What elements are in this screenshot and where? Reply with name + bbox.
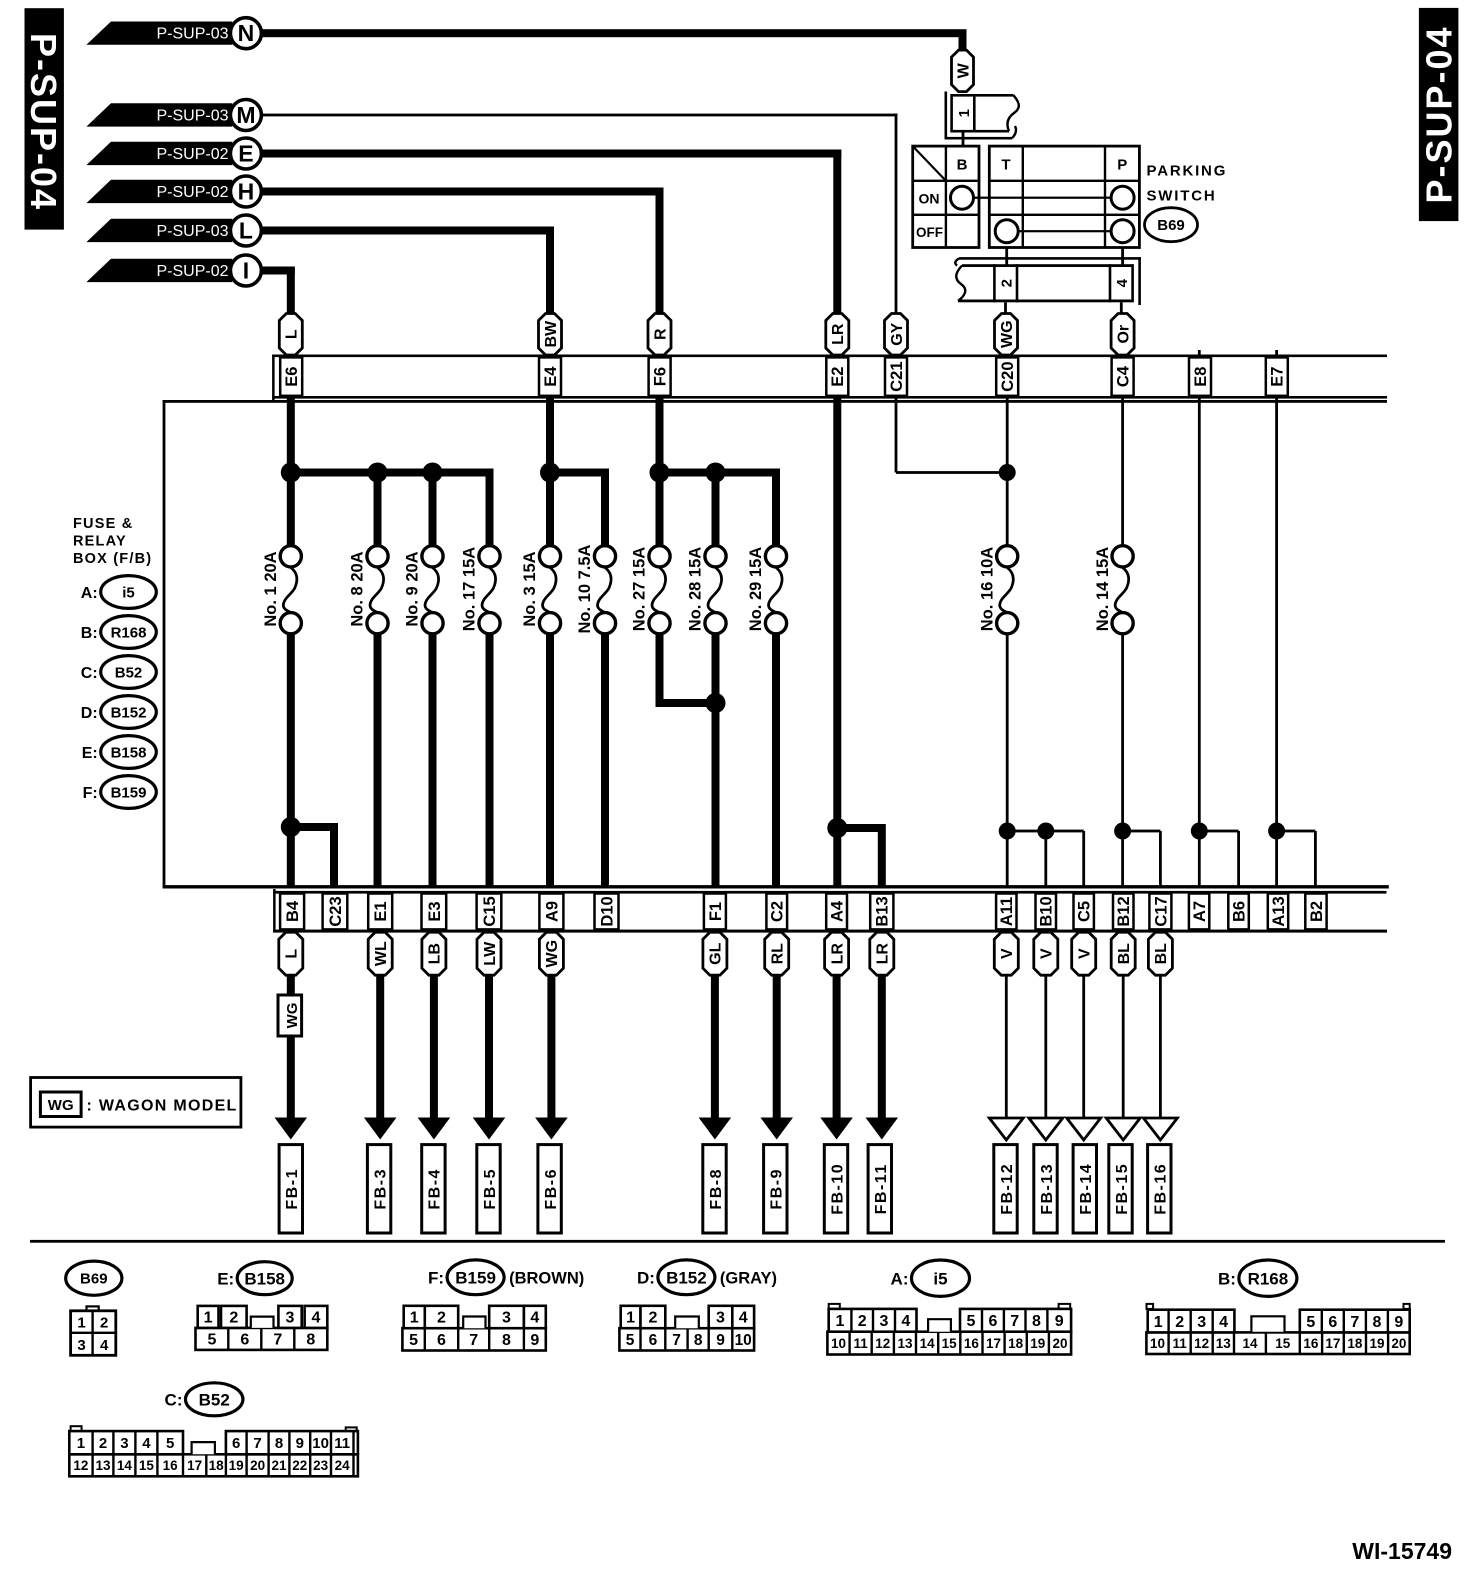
svg-text:C20: C20 [999, 361, 1017, 391]
junction B12 tap [1114, 823, 1131, 840]
arrow to FB-14 [1082, 974, 1085, 1119]
svg-text:B159: B159 [455, 1268, 496, 1287]
connector view B152 key tab [675, 1317, 699, 1329]
wire switch P to pin 4 [1121, 248, 1124, 266]
svg-text:WG: WG [48, 1097, 74, 1114]
svg-text:P-SUP-04: P-SUP-04 [23, 33, 64, 211]
svg-text:10: 10 [1150, 1336, 1165, 1351]
svg-text:F6: F6 [652, 367, 670, 386]
load box FB-4 [422, 1145, 445, 1233]
svg-text:P-SUP-02: P-SUP-02 [156, 184, 228, 201]
svg-text:3: 3 [502, 1310, 511, 1327]
svg-text:: WAGON MODEL: : WAGON MODEL [87, 1098, 238, 1115]
connector view B159 row 5-9 [402, 1328, 545, 1350]
connector ref B69 (parking switch) [1145, 208, 1198, 242]
svg-text:4: 4 [739, 1310, 748, 1327]
wire pin4 to Or [1120, 302, 1123, 315]
svg-text:No. 9 20A: No. 9 20A [404, 551, 422, 626]
pin pin E2 (top bus) [826, 357, 848, 395]
pin pin E4 (top bus) [539, 357, 561, 395]
svg-text:4: 4 [901, 1313, 910, 1330]
svg-text:Or: Or [1115, 325, 1132, 344]
svg-text:A4: A4 [829, 900, 847, 922]
svg-text:23: 23 [313, 1458, 329, 1473]
svg-text:1: 1 [1154, 1314, 1163, 1331]
pin pin E7 (top bus) [1266, 357, 1288, 395]
svg-text:No. 16 10A: No. 16 10A [978, 547, 996, 631]
svg-text:SWITCH: SWITCH [1147, 187, 1217, 204]
fuse and relay box outline [163, 400, 1389, 889]
arrow to FB-4 [430, 974, 438, 1122]
svg-text:LR: LR [829, 943, 846, 965]
wire I to E6 [261, 267, 295, 275]
arrow to FB-5 [485, 974, 493, 1122]
svg-text:ON: ON [919, 191, 940, 207]
svg-text:6: 6 [232, 1435, 240, 1452]
svg-text:9: 9 [1394, 1314, 1403, 1331]
svg-text:20: 20 [1052, 1336, 1067, 1351]
connector strip below parking switch (pins 2,4) [955, 257, 1141, 305]
wire color label LR (blue-red) at A4 [825, 932, 849, 975]
svg-text:11: 11 [334, 1435, 350, 1452]
connector strip above parking switch (pin 1) [945, 92, 1019, 140]
connector view i5 corner tabs [829, 1304, 1070, 1309]
svg-text:3: 3 [1197, 1314, 1206, 1331]
fuse No.28 15A [687, 546, 726, 634]
connector view i5 row 10-20 [827, 1332, 1071, 1355]
svg-text:E2: E2 [829, 367, 847, 387]
reference flag P-SUP-03 L (to page P-SUP-03 node L) [86, 219, 232, 242]
svg-text:RELAY: RELAY [73, 534, 127, 550]
svg-text:4: 4 [100, 1337, 109, 1354]
svg-text:E:: E: [217, 1269, 234, 1288]
svg-text:B69: B69 [1157, 217, 1185, 234]
svg-text:3: 3 [716, 1310, 725, 1327]
wire color label WL (white-blue) at E1 [368, 932, 392, 975]
svg-text:No. 29 15A: No. 29 15A [747, 547, 765, 631]
svg-text:C15: C15 [481, 896, 499, 926]
svg-text:E1: E1 [372, 901, 390, 921]
pin pin C17 (bottom bus) [1149, 894, 1171, 930]
pin pin C23 (bottom bus) [323, 894, 348, 930]
connector view R168 key tab [1251, 1316, 1284, 1331]
connector view B52 pins 1-5 [69, 1431, 183, 1454]
branch A13 to B2 [1277, 830, 1316, 833]
svg-text:19: 19 [1030, 1336, 1045, 1351]
arrow to FB-13 [1044, 974, 1047, 1119]
fuse No.27 15A [631, 546, 670, 634]
svg-text:L: L [239, 218, 253, 244]
arrow to FB-3 [376, 974, 384, 1122]
connector view B52 pins 6-11 [226, 1431, 358, 1454]
svg-text:V: V [1077, 948, 1094, 959]
svg-text:6: 6 [1328, 1314, 1337, 1331]
svg-text:FB-5: FB-5 [482, 1168, 499, 1210]
wire color label LR (blue-red) at E2 [826, 314, 849, 356]
connector view B159 pins 1-4 [404, 1306, 546, 1328]
svg-text:BL: BL [1116, 943, 1133, 965]
svg-text:P-SUP-04: P-SUP-04 [1419, 25, 1460, 203]
svg-text:No. 14 15A: No. 14 15A [1094, 547, 1112, 631]
svg-text:OFF: OFF [916, 225, 943, 240]
pin pin B2 (bottom bus) [1305, 894, 1326, 930]
svg-text:P: P [1117, 157, 1127, 174]
junction A4/B13 [827, 818, 847, 838]
svg-text:17: 17 [1325, 1336, 1340, 1351]
page banner right P-SUP-04 [1419, 8, 1459, 221]
pin pin C5 (bottom bus) [1074, 894, 1094, 930]
svg-text:20: 20 [1391, 1336, 1406, 1351]
pin pin F6 (top bus) [649, 357, 671, 395]
feed bus F6 branch [656, 469, 781, 477]
svg-text:No. 17 15A: No. 17 15A [461, 547, 479, 631]
svg-text:9: 9 [716, 1332, 725, 1349]
connector view i5 pins 5-9 [960, 1309, 1071, 1332]
svg-text:BW: BW [543, 320, 560, 348]
svg-text:B152: B152 [666, 1268, 707, 1287]
svg-text:B10: B10 [1038, 896, 1056, 926]
branch A11 to B10 to C5 [1007, 830, 1083, 833]
svg-text:FB-8: FB-8 [708, 1168, 725, 1210]
connector view R168 row 10-20 [1146, 1332, 1409, 1354]
connector view B52 key tab [192, 1442, 215, 1454]
svg-text:3: 3 [880, 1313, 889, 1330]
load box FB-14 [1073, 1145, 1096, 1233]
wire E2 to A4 [833, 350, 841, 887]
wire E7 to A13 [1275, 350, 1278, 887]
arrow to FB-10 [833, 974, 841, 1122]
svg-text:W: W [955, 62, 972, 78]
wire color label BL (black-blue) at B12 [1111, 932, 1135, 975]
svg-text:5: 5 [207, 1332, 216, 1349]
svg-text:2: 2 [229, 1310, 238, 1327]
wire color label L (blue) at B4 [279, 932, 303, 975]
junction fuse 9 tap [423, 463, 443, 483]
svg-text:E4: E4 [542, 366, 560, 387]
connector view B69 pin grid [71, 1306, 116, 1355]
svg-text:2: 2 [648, 1310, 657, 1327]
svg-text:2: 2 [100, 1315, 108, 1332]
svg-text:22: 22 [292, 1458, 307, 1473]
pin pin B10 (bottom bus) [1036, 894, 1057, 930]
svg-text:12: 12 [875, 1336, 890, 1351]
svg-text:D:: D: [81, 705, 98, 722]
svg-text:13: 13 [897, 1336, 913, 1351]
svg-text:3: 3 [77, 1337, 85, 1354]
connector view B52 row 12-24 [69, 1454, 358, 1476]
arrow to FB-11 [878, 974, 886, 1122]
fuse No.8 20A [349, 546, 388, 634]
svg-text:N: N [238, 20, 255, 46]
svg-text:18: 18 [1008, 1336, 1024, 1351]
parking switch B69 contact table [913, 146, 1140, 247]
pin pin D10 (bottom bus) [595, 894, 619, 930]
svg-text:WG: WG [999, 320, 1016, 348]
svg-text:FB-9: FB-9 [769, 1168, 786, 1210]
svg-text:A:: A: [891, 1269, 909, 1288]
svg-text:21: 21 [271, 1458, 287, 1473]
svg-text:B:: B: [81, 625, 98, 642]
svg-text:E3: E3 [426, 901, 444, 921]
pin pin B4 (bottom bus) [280, 894, 304, 930]
load box FB-13 [1034, 1145, 1057, 1233]
wire to fuse No.9 [429, 469, 437, 547]
svg-text:2: 2 [437, 1310, 446, 1327]
fuse No.1 20A [262, 546, 301, 634]
pin pin C15 (bottom bus) [477, 894, 502, 930]
svg-text:8: 8 [306, 1332, 315, 1349]
svg-text:17: 17 [986, 1336, 1001, 1351]
load box FB-12 [994, 1145, 1017, 1233]
svg-text:C:: C: [165, 1390, 183, 1409]
svg-text:8: 8 [694, 1332, 703, 1349]
svg-text:No. 1 20A: No. 1 20A [262, 551, 280, 626]
svg-text:A11: A11 [998, 897, 1016, 926]
svg-text:i5: i5 [122, 584, 135, 601]
wire color label GY (gray-yellow) at C21 [885, 314, 908, 356]
connector view B158 pins 1-4 [198, 1306, 328, 1328]
svg-text:1: 1 [204, 1310, 213, 1327]
svg-text:i5: i5 [933, 1269, 947, 1288]
svg-text:FB-14: FB-14 [1078, 1163, 1095, 1215]
wire M to C21 [261, 114, 897, 117]
pin pin A4 (bottom bus) [826, 894, 847, 930]
connector view B159 key tab [463, 1317, 485, 1329]
svg-text:7: 7 [253, 1435, 261, 1452]
wire color label W [952, 50, 974, 92]
feed bus E4 branch [546, 469, 609, 477]
pin pin E8 (top bus) [1189, 357, 1211, 395]
junction A11 tap [999, 823, 1016, 840]
svg-text:3: 3 [120, 1435, 128, 1452]
svg-text:B159: B159 [111, 784, 147, 801]
connector view B158 row 5-8 [196, 1328, 328, 1350]
svg-text:6: 6 [437, 1332, 446, 1349]
separator line [30, 1240, 1445, 1243]
junction B4/C23 [281, 817, 301, 837]
wire to fuse No.17 [486, 469, 494, 547]
svg-text:LW: LW [482, 941, 499, 966]
svg-text:7: 7 [1350, 1314, 1359, 1331]
branch A7 to B6 [1199, 830, 1238, 833]
svg-text:P-SUP-02: P-SUP-02 [156, 263, 228, 280]
svg-text:4: 4 [312, 1310, 321, 1327]
svg-text:No. 27 15A: No. 27 15A [631, 547, 649, 631]
svg-text:WI-15749: WI-15749 [1352, 1538, 1452, 1564]
svg-text:4: 4 [1114, 278, 1131, 287]
junction fuse 8 tap [368, 463, 388, 483]
svg-text:C23: C23 [327, 896, 345, 926]
wire switch T to pin 2 [1005, 248, 1008, 266]
pin pin A7 (bottom bus) [1189, 894, 1209, 930]
reference flag P-SUP-02 E (to page P-SUP-02 node E) [86, 142, 232, 165]
svg-text:E6: E6 [283, 367, 301, 387]
svg-text:B69: B69 [80, 1271, 108, 1288]
connector view B52 corner tabs [71, 1426, 357, 1431]
svg-text:(BROWN): (BROWN) [509, 1270, 584, 1288]
svg-text:A9: A9 [543, 901, 561, 922]
svg-text:4: 4 [1219, 1314, 1228, 1331]
pin pin A9 (bottom bus) [539, 894, 563, 930]
svg-text:11: 11 [854, 1336, 869, 1351]
svg-text:5: 5 [967, 1313, 976, 1330]
wire E4 to fuse No.3 to A9 [546, 350, 554, 547]
svg-text:PARKING: PARKING [1147, 162, 1228, 179]
svg-text:5: 5 [166, 1435, 174, 1452]
svg-text:FB-6: FB-6 [543, 1168, 560, 1210]
connector view i5 pins 1-4 [829, 1309, 917, 1332]
svg-text:1: 1 [626, 1310, 635, 1327]
pin pin A11 (bottom bus) [996, 894, 1016, 930]
svg-text:GY: GY [889, 322, 906, 345]
reference flag P-SUP-02 I (to page P-SUP-02 node I) [86, 259, 232, 282]
wire color label L (blue) at E6 [279, 314, 302, 356]
wire E to E2 [261, 150, 841, 158]
fuse No.14 15A [1094, 546, 1133, 634]
junction A7 tap [1191, 823, 1208, 840]
pin pin C4 (top bus) [1112, 357, 1134, 395]
svg-text:LB: LB [427, 943, 444, 964]
svg-text:16: 16 [964, 1336, 980, 1351]
svg-text:C17: C17 [1152, 896, 1170, 926]
svg-text:F:: F: [428, 1268, 444, 1287]
svg-text:H: H [238, 179, 255, 205]
svg-text:FB-15: FB-15 [1114, 1163, 1131, 1215]
svg-text:5: 5 [626, 1332, 635, 1349]
svg-text:C2: C2 [769, 901, 787, 922]
junction C21/C20 [999, 464, 1016, 481]
svg-text:5: 5 [409, 1332, 418, 1349]
arrow to FB-9 [773, 974, 781, 1122]
svg-text:8: 8 [275, 1435, 283, 1452]
legend WG wagon model [31, 1078, 241, 1128]
svg-text:13: 13 [1216, 1336, 1232, 1351]
reference flag P-SUP-02 H (to page P-SUP-02 node H) [86, 180, 232, 203]
svg-text:19: 19 [229, 1458, 244, 1473]
svg-text:15: 15 [1275, 1336, 1291, 1351]
svg-text:7: 7 [672, 1332, 681, 1349]
svg-text:7: 7 [469, 1332, 478, 1349]
svg-text:BOX (F/B): BOX (F/B) [73, 551, 152, 567]
svg-text:F:: F: [83, 785, 98, 802]
svg-text:LR: LR [830, 323, 847, 345]
svg-text:R168: R168 [1248, 1269, 1289, 1288]
svg-text:B12: B12 [1115, 896, 1133, 926]
wire C4 to fuse No.14 to B12 [1121, 350, 1124, 548]
svg-text:V: V [999, 948, 1016, 959]
svg-text:GL: GL [708, 942, 725, 964]
svg-text:B152: B152 [111, 704, 147, 721]
wire color label WG (white-green) at A9 [539, 932, 563, 975]
load box FB-15 [1109, 1145, 1132, 1233]
branch A4 to B13 [837, 824, 882, 832]
svg-text:M: M [236, 102, 255, 128]
wire to fuse No.29 to C2 [772, 469, 780, 547]
arrow to FB-6 [547, 974, 555, 1122]
connector view B152 row 5-10 [619, 1328, 754, 1350]
arrow to FB-1 [287, 974, 295, 1122]
svg-text:A13: A13 [1270, 896, 1288, 926]
wire pin2 to WG [1004, 302, 1007, 315]
load box FB-1 [279, 1145, 302, 1233]
connector view R168 pins 5-9 [1300, 1310, 1410, 1333]
svg-text:FB-16: FB-16 [1153, 1163, 1170, 1215]
reference flag P-SUP-03 N (to page P-SUP-03 node N) [86, 22, 232, 45]
load box FB-6 [538, 1145, 561, 1233]
load box FB-3 [367, 1145, 390, 1233]
wire color label LR (blue-red) at B13 [870, 932, 894, 975]
joint below fuse No.27 [656, 699, 716, 707]
wire color label LB (blue-black) at E3 [422, 932, 446, 975]
load box FB-11 [868, 1145, 891, 1233]
svg-text:R168: R168 [111, 624, 147, 641]
svg-text:P-SUP-02: P-SUP-02 [156, 146, 228, 163]
svg-text:FUSE &: FUSE & [73, 516, 133, 532]
load box FB-10 [824, 1145, 847, 1233]
arrow to FB-16 [1159, 974, 1162, 1119]
pin pin E6 (top bus) [280, 357, 302, 395]
svg-text:B52: B52 [115, 664, 143, 681]
wire L to E4 [261, 227, 554, 235]
wire C21 [895, 350, 898, 473]
wire N to parking switch [261, 29, 967, 37]
svg-text:RL: RL [770, 943, 787, 965]
svg-text:No. 28 15A: No. 28 15A [687, 547, 705, 631]
svg-text:10: 10 [312, 1435, 329, 1452]
svg-text:BL: BL [1153, 943, 1170, 965]
svg-text:19: 19 [1369, 1336, 1384, 1351]
wire color label LW (blue-white) at C15 [477, 932, 501, 975]
label FUSE & RELAY BOX (F/B) [73, 516, 152, 567]
svg-text:D:: D: [637, 1268, 655, 1287]
feed bus E6 branch [287, 469, 494, 477]
svg-text:7: 7 [273, 1332, 282, 1349]
svg-text:E: E [238, 141, 253, 167]
svg-text:2: 2 [1175, 1314, 1184, 1331]
wire color label V (violet) at A11 [994, 932, 1018, 975]
fuse No.9 20A [404, 546, 443, 634]
svg-text:WG: WG [544, 940, 561, 968]
svg-text:16: 16 [163, 1458, 179, 1473]
svg-text:B158: B158 [111, 744, 147, 761]
load box FB-16 [1148, 1145, 1171, 1233]
svg-text:6: 6 [989, 1313, 998, 1330]
wire color label BL (black-blue) at C17 [1148, 932, 1172, 975]
svg-text:C:: C: [81, 665, 98, 682]
connector view R168 corner tabs [1147, 1304, 1410, 1309]
svg-text:8: 8 [502, 1332, 511, 1349]
svg-text:16: 16 [1303, 1336, 1319, 1351]
switch contact ON row [951, 186, 1135, 209]
svg-text:B158: B158 [244, 1269, 285, 1288]
fuse No.29 15A [747, 546, 786, 634]
bottom connector bus [273, 889, 1387, 933]
svg-text:F1: F1 [707, 902, 725, 921]
junction A13 tap [1268, 823, 1285, 840]
svg-text:FB-1: FB-1 [284, 1168, 301, 1210]
svg-text:A:: A: [81, 585, 98, 602]
svg-text:9: 9 [1055, 1313, 1064, 1330]
svg-text:B52: B52 [199, 1390, 230, 1409]
svg-text:17: 17 [187, 1458, 202, 1473]
svg-text:1: 1 [77, 1315, 85, 1332]
svg-text:L: L [284, 329, 301, 339]
pin pin E1 (bottom bus) [368, 894, 392, 930]
wire E8 to A7 [1198, 350, 1201, 887]
svg-text:No. 8 20A: No. 8 20A [349, 551, 367, 626]
load box FB-5 [477, 1145, 500, 1233]
pin pin F1 (bottom bus) [704, 894, 726, 930]
